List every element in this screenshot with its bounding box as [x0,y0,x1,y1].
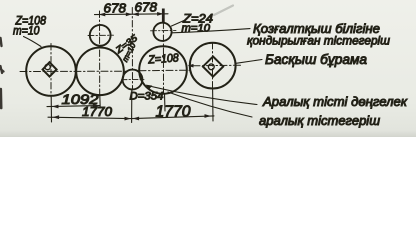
gear G5 Z=108 middle [139,46,187,94]
svg-text:қондырылған тістегеріш: қондырылған тістегеріш [247,34,390,48]
vertical axis gear Z=108 middle / motor pinion [162,9,164,94]
hub diamond G1 [43,62,57,76]
svg-text:678: 678 [135,0,158,15]
svg-text:Аралық тісті дөңгелек: Аралық тісті дөңгелек [262,94,408,109]
idler small gear G4 (D=354) [123,70,143,90]
dimension 1092 [47,106,100,107]
mesh arrowhead between Z=108 and right gear [188,64,194,68]
gear G1 Z=108 left [26,46,76,96]
vertical axis idler small gear [131,8,133,91]
svg-text:m=10: m=10 [13,24,40,38]
svg-text:аралық тістегеріш: аралық тістегеріш [259,113,380,128]
gear G2 [76,48,124,96]
axis through gear Z=108 middle [139,69,190,72]
dimension 1770 left [48,117,132,118]
leader label to gear G1 [24,37,42,47]
leader from Z=24 label to pinion G6 [172,21,185,27]
leader idler gear to text line 4 [147,86,257,105]
vertical axis gear G2 / top pinion [99,11,101,96]
main horizontal axis (dash-dot) through left gears [20,70,126,72]
svg-text:1770: 1770 [82,105,112,119]
pinion G3 above G2 [90,25,111,46]
vertical axis gear G1 [50,44,52,98]
leader motor pinion to text line 1 [172,29,250,33]
dimension 678 right segment [132,13,168,15]
right gear G7 (lead screw wheel) [190,43,236,89]
scan mark left edge bottom [0,89,3,108]
svg-text:D=354: D=354 [130,91,164,103]
paper background [0,0,416,137]
motor pinion G6 Z=24 [153,23,171,41]
svg-text:678: 678 [104,1,127,16]
leader gear G5 to text line 5 [168,92,252,117]
vertical axis right gear [212,43,214,90]
scan mark left edge top [1,38,2,46]
hub diamond G7 [203,57,223,77]
axis through right gear [193,64,241,67]
crosshair G4 [122,78,145,80]
crosshair G6 [151,29,177,31]
scan mark left edge middle [1,66,4,73]
dimension 1770 right [132,116,214,119]
svg-text:Басқыш бұрама: Басқыш бұрама [265,52,367,67]
hub hole G1 [45,64,50,69]
crosshair G3 [88,34,114,36]
svg-text:Z=108: Z=108 [147,52,180,66]
leader right gear to text Баскыш [236,60,262,64]
svg-text:1770: 1770 [156,104,191,121]
top arrow tick on motor axis [162,9,165,23]
scan smudge top right [214,6,233,16]
hub hole G7 [208,64,214,70]
dimension 678 left segment [95,13,133,15]
